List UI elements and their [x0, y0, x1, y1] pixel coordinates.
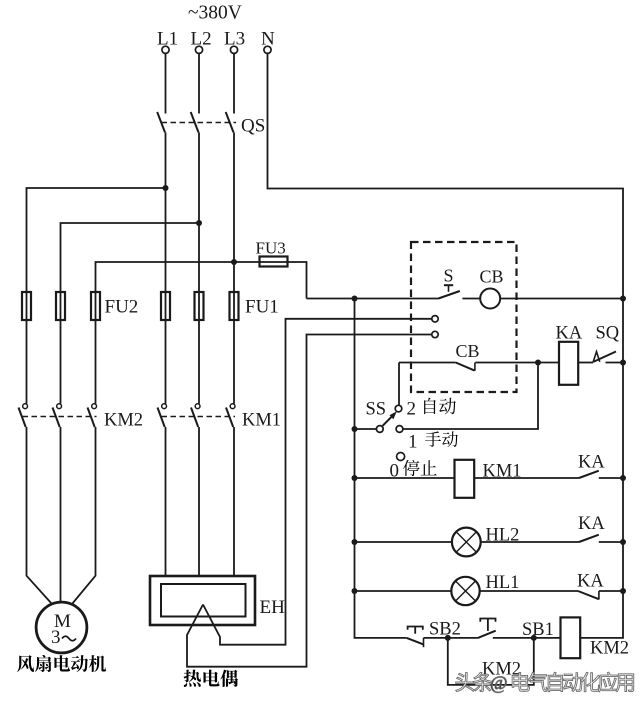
wire row4 left — [355, 541, 452, 543]
watermark toutiao — [456, 672, 634, 694]
terminal L2 — [195, 46, 202, 53]
label 3~ — [51, 627, 76, 648]
wire row3 left — [355, 477, 455, 479]
wire row5 right — [599, 590, 623, 592]
label 0 — [390, 461, 400, 482]
svg-text:SQ: SQ — [596, 324, 620, 344]
wire row3 mid — [474, 477, 579, 479]
wire row5 mid — [480, 590, 578, 592]
wire row6 a — [424, 637, 478, 639]
label FU3 — [256, 238, 286, 257]
fuse FU2 c — [91, 292, 100, 320]
node SB1 out — [531, 635, 537, 641]
svg-text:KM1: KM1 — [242, 411, 281, 431]
fuse FU1 b — [195, 292, 204, 320]
fuse FU1 a — [161, 292, 170, 320]
wire EH a — [165, 427, 167, 576]
terminal CB in1 — [432, 316, 438, 322]
label stop — [403, 460, 437, 476]
QS linkage dashed — [162, 122, 237, 124]
wire L3 drop — [233, 53, 235, 113]
heater EH outer — [150, 576, 255, 625]
lamp HL2 — [452, 528, 481, 557]
switch S — [438, 285, 459, 298]
label SS — [366, 400, 387, 420]
KM2 contact a — [19, 404, 28, 427]
QS pole L1 — [157, 112, 165, 132]
svg-text:FU2: FU2 — [105, 297, 139, 318]
KM2 contact b — [53, 404, 62, 427]
svg-text:KA: KA — [578, 514, 605, 534]
wire row2 mid — [475, 362, 559, 364]
terminal L3 — [230, 46, 237, 53]
QS pole L3 — [226, 112, 234, 132]
svg-text:SB2: SB2 — [429, 620, 461, 640]
svg-text:EH: EH — [260, 597, 286, 618]
thermocouple probe right — [203, 319, 432, 645]
node L1 tap — [163, 185, 169, 191]
label SB2 — [429, 620, 461, 640]
svg-text:CB: CB — [480, 267, 504, 287]
coil KA — [559, 342, 578, 385]
label KM2 coil — [590, 639, 629, 659]
wire manual — [403, 363, 538, 430]
KM1 contact b — [191, 404, 200, 427]
label QS — [241, 116, 265, 137]
node row2 right — [620, 360, 626, 366]
node row2 manual — [535, 360, 541, 366]
label thermocouple — [184, 670, 239, 687]
button SB1 no — [478, 619, 496, 638]
svg-text:~380V: ~380V — [188, 3, 242, 24]
label KM1 coil — [483, 462, 522, 482]
KM2 linkage dashed — [23, 416, 97, 418]
thermocouple probe left — [187, 335, 432, 667]
heater EH inner — [161, 584, 246, 617]
contact KA no row4 — [579, 535, 599, 542]
wire control left vertical — [355, 299, 407, 638]
node row4 right — [620, 539, 626, 545]
wire FU3 feed — [234, 262, 307, 299]
svg-text:@: @ — [490, 673, 508, 694]
contact CB nc — [456, 363, 475, 371]
limit switch SQ — [593, 352, 616, 363]
label KM2 contacts — [104, 411, 143, 431]
svg-text:KM2: KM2 — [104, 411, 143, 431]
lamp HL1 — [451, 577, 479, 605]
wire row2 sq — [578, 362, 593, 364]
wire EH c — [233, 427, 235, 576]
fuse FU2 b — [56, 292, 65, 320]
label 1 — [408, 432, 418, 453]
label fan motor — [17, 655, 106, 672]
svg-text:KM2: KM2 — [590, 639, 629, 659]
wire EH b — [198, 427, 200, 576]
node row5 right — [620, 588, 626, 594]
KM1 contact a — [158, 404, 167, 427]
wire L3 main — [233, 132, 235, 403]
selector pos2 circle — [395, 405, 402, 412]
QS pole L2 — [191, 112, 199, 132]
wire L2 main — [198, 132, 200, 403]
selector SS pole circle — [376, 426, 383, 433]
wire row1 left — [307, 298, 439, 300]
svg-text:FU1: FU1 — [245, 297, 279, 318]
node SB2 out — [445, 635, 451, 641]
label KA coil — [556, 324, 583, 344]
terminal L1 — [162, 46, 169, 53]
selector pos0 circle — [397, 453, 405, 461]
motor M1 circle — [36, 602, 87, 653]
wire L2 drop — [198, 53, 200, 113]
label HL2 — [486, 526, 520, 546]
svg-text:2: 2 — [407, 399, 417, 420]
fuse FU3 — [260, 257, 288, 267]
label ~380V supply — [188, 3, 242, 24]
label N — [261, 29, 275, 50]
wire SS pole — [355, 428, 377, 430]
wire row3 right — [599, 477, 623, 479]
node row1 LV — [352, 296, 358, 302]
label L1 — [157, 29, 178, 50]
label KM1 contacts — [242, 411, 281, 431]
terminal N — [264, 46, 271, 53]
fuse FU1 c — [230, 292, 239, 320]
svg-text:HL1: HL1 — [486, 573, 520, 593]
wire L1 branch — [27, 188, 166, 404]
node row1 right — [620, 296, 626, 302]
button SB2 nc — [407, 627, 424, 648]
label HL1 — [486, 573, 520, 593]
node row4 left — [352, 539, 358, 545]
label M — [54, 611, 71, 632]
wire L1 main — [165, 132, 167, 403]
contact KA nc row5 — [578, 591, 599, 600]
svg-text:KA: KA — [577, 572, 604, 592]
label L2 — [191, 29, 212, 50]
svg-text:CB: CB — [456, 341, 480, 361]
node L3 tap — [231, 259, 237, 265]
contact KA no row3 — [579, 471, 599, 478]
label L3 — [224, 29, 245, 50]
svg-text:SS: SS — [366, 400, 387, 420]
svg-text:1: 1 — [408, 432, 418, 453]
svg-text:QS: QS — [241, 116, 265, 137]
wire row2 drop to auto — [398, 363, 400, 406]
wire L1 drop — [165, 53, 167, 113]
svg-text:KA: KA — [578, 453, 605, 473]
wire L3 branch — [96, 262, 235, 404]
wire L2 branch — [61, 223, 200, 404]
selector pos1 circle — [396, 426, 403, 433]
node row3 right — [620, 475, 626, 481]
wire row1 right — [500, 298, 623, 300]
wire row4 right — [599, 541, 623, 543]
label FU1 — [245, 297, 279, 318]
wire row4 mid — [481, 541, 579, 543]
node row5 left — [352, 588, 358, 594]
svg-text:S: S — [444, 266, 454, 286]
indicator CB circle — [480, 289, 500, 309]
coil KM2 — [561, 617, 581, 658]
label S — [444, 266, 454, 286]
svg-text:FU3: FU3 — [256, 238, 286, 257]
wire row2 left — [399, 362, 456, 364]
node L2 tap — [196, 220, 202, 226]
wire motor c — [72, 427, 96, 604]
label KA row4 — [578, 514, 605, 534]
node SS pole — [352, 426, 358, 432]
KM1 contact c — [226, 404, 235, 427]
svg-text:KA: KA — [556, 324, 583, 344]
controller CB dashed box — [411, 242, 517, 392]
wire row5 left — [355, 590, 452, 592]
wire N to KM2 coil — [580, 592, 623, 638]
KM2 contact c — [88, 404, 97, 427]
label KA row3 — [578, 453, 605, 473]
wire row2 right — [606, 362, 624, 364]
label EH — [260, 597, 286, 618]
label SB1 — [522, 620, 554, 640]
wire row6 b — [493, 637, 561, 639]
wire KM2 hold — [448, 638, 534, 685]
label 2 — [407, 399, 417, 420]
label CB top — [480, 267, 504, 287]
label SQ — [596, 324, 620, 344]
coil KM1 — [455, 460, 475, 498]
label manual — [425, 431, 458, 447]
wire motor b — [60, 427, 62, 603]
KM1 linkage dashed — [162, 416, 236, 418]
svg-text:3: 3 — [51, 627, 61, 648]
label CB mid — [456, 341, 480, 361]
node row3 left — [352, 475, 358, 481]
wire motor a — [27, 427, 52, 604]
label FU2 — [105, 297, 139, 318]
wire row1 mid — [462, 298, 480, 300]
label KM2 hold — [482, 660, 521, 680]
wire N run — [268, 53, 624, 592]
selector SS lever — [383, 411, 397, 426]
fuse FU2 a — [22, 292, 31, 320]
label KA row5 — [577, 572, 604, 592]
label auto — [424, 398, 456, 415]
terminal CB in2 — [432, 331, 438, 337]
